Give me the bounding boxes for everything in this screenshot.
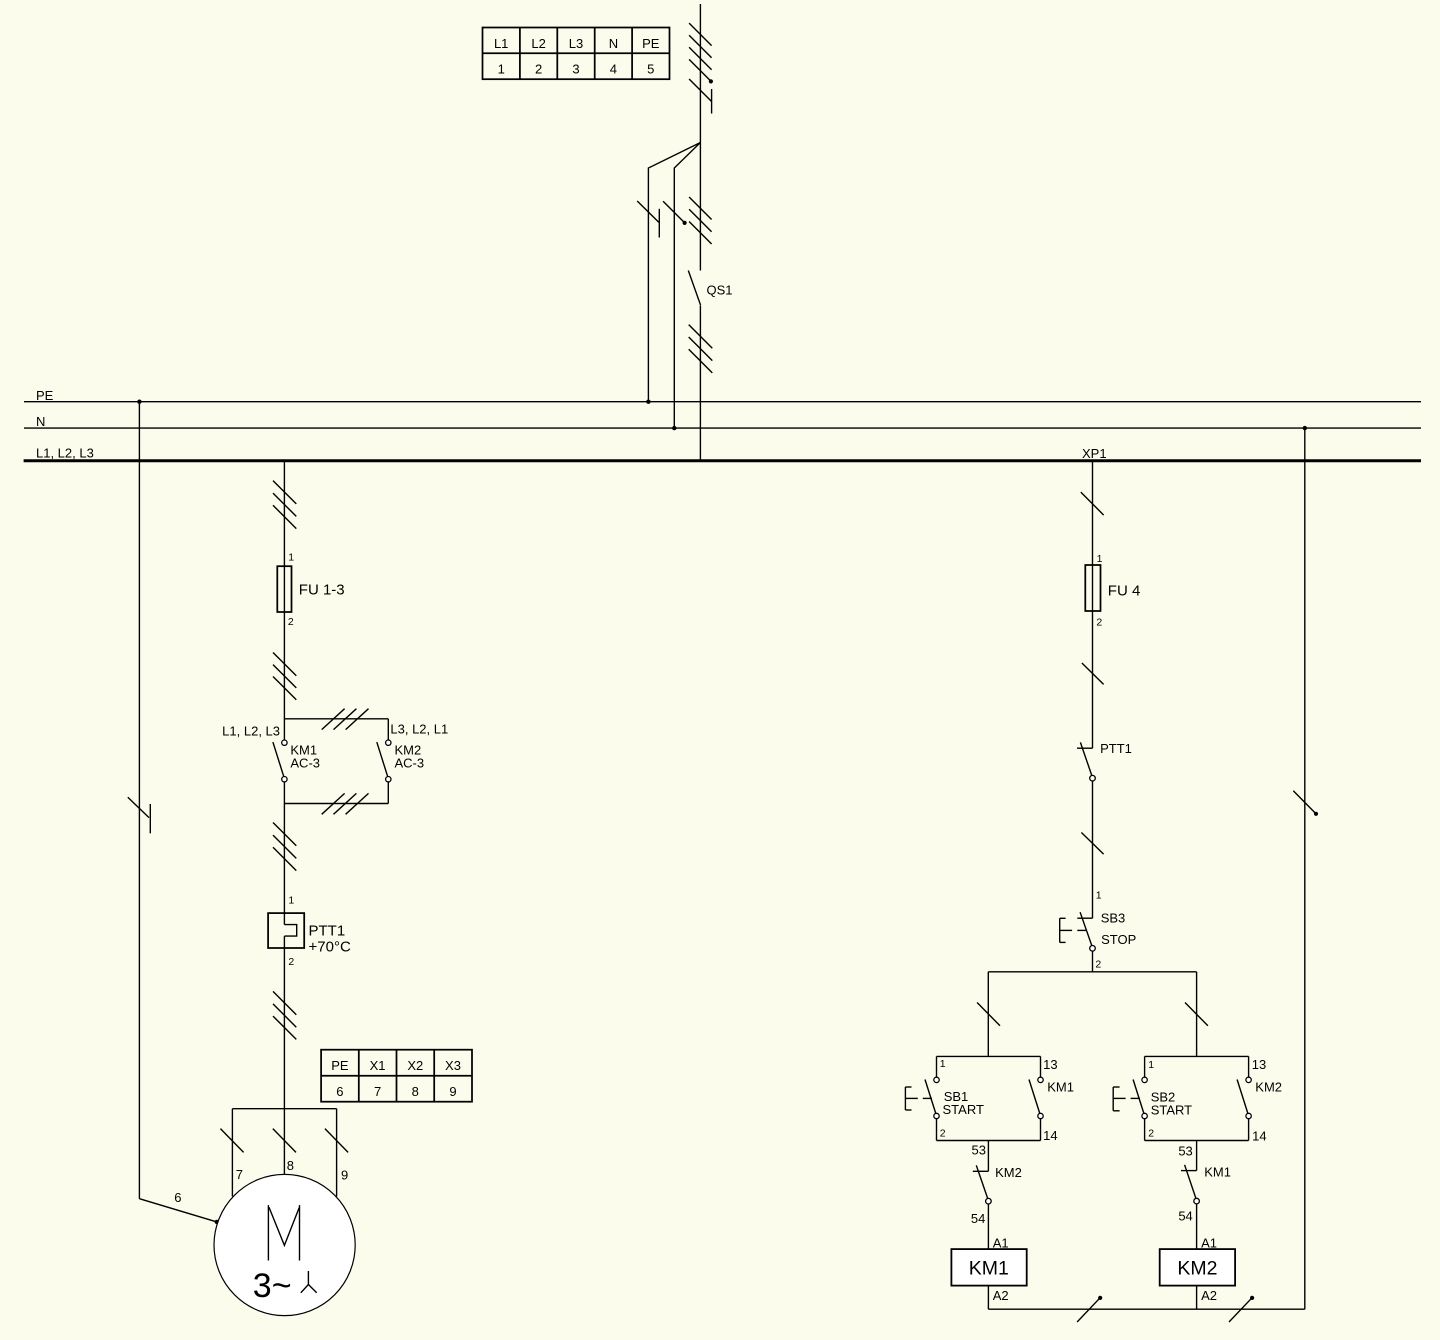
svg-text:54: 54 bbox=[971, 1211, 985, 1226]
svg-text:X2: X2 bbox=[407, 1058, 423, 1073]
svg-text:2: 2 bbox=[1096, 617, 1102, 629]
svg-text:13: 13 bbox=[1043, 1057, 1057, 1072]
svg-text:1: 1 bbox=[1096, 890, 1102, 902]
svg-text:AC-3: AC-3 bbox=[290, 756, 320, 771]
thermal sensor PTT1 +70C bbox=[268, 913, 304, 948]
conductor slash on SB1 drop bbox=[977, 1003, 1000, 1026]
conductor slash on SB2 drop bbox=[1185, 1003, 1208, 1026]
conductor slash on centre drop bbox=[273, 1129, 296, 1153]
node: N core dot mark bbox=[709, 79, 713, 83]
disconnector QS1 bbox=[688, 271, 700, 306]
svg-text:13: 13 bbox=[1252, 1057, 1266, 1072]
wire: KM1 aux leg lower bbox=[1040, 1119, 1042, 1141]
wire: drop to SB1 bbox=[987, 972, 989, 1057]
wire: coil KM2 to N return bbox=[1196, 1286, 1198, 1310]
svg-text:PE: PE bbox=[36, 388, 54, 403]
PE conductor mark (slash+bar) bbox=[637, 201, 659, 238]
svg-text:PTT1: PTT1 bbox=[309, 923, 346, 940]
svg-text:FU 1-3: FU 1-3 bbox=[299, 581, 345, 598]
wire: left branch mid bbox=[283, 782, 285, 925]
aux contact KM2 (NO) bbox=[1237, 1080, 1248, 1114]
wire: SB1 left leg upper bbox=[936, 1056, 938, 1077]
svg-text:A2: A2 bbox=[1201, 1288, 1217, 1303]
wire: PE diagonal to motor frame bbox=[139, 1199, 216, 1222]
node: N bus junction bbox=[672, 426, 676, 430]
svg-text:4: 4 bbox=[610, 62, 617, 77]
wire: SB1 bottom rung bbox=[937, 1140, 1041, 1142]
wire: left branch lower bbox=[283, 936, 285, 1174]
PE core bar mark bbox=[711, 89, 713, 114]
wire: motor feeder rung bbox=[232, 1108, 336, 1110]
supply cable conductor marks (5 cores) bbox=[689, 23, 712, 101]
wire: interlock to coil KM1 bbox=[987, 1204, 989, 1249]
svg-text:L1, L2, L3: L1, L2, L3 bbox=[222, 724, 280, 739]
svg-text:PE: PE bbox=[331, 1058, 349, 1073]
svg-text:2: 2 bbox=[535, 62, 542, 77]
conductor slash below FU4 bbox=[1082, 663, 1104, 684]
svg-text:2: 2 bbox=[940, 1127, 946, 1139]
wire: N drop right side bbox=[1304, 428, 1306, 1309]
N conductor mark on bottom wire (left) bbox=[1077, 1298, 1100, 1322]
wire: KM2 aux leg lower bbox=[1248, 1119, 1250, 1141]
svg-text:KM2: KM2 bbox=[1177, 1257, 1217, 1279]
thermostat contact PTT1 (NC) bbox=[1077, 742, 1093, 775]
svg-text:KM2: KM2 bbox=[1255, 1080, 1282, 1095]
three-phase mark on top rung bbox=[322, 709, 369, 730]
svg-text:PTT1: PTT1 bbox=[1100, 741, 1132, 756]
wire: SB2 bottom rung bbox=[1145, 1140, 1249, 1142]
svg-text:3~: 3~ bbox=[253, 1267, 292, 1305]
svg-text:7: 7 bbox=[236, 1167, 243, 1182]
three-phase mark above contactor bbox=[273, 653, 296, 700]
wire below QS1 bbox=[699, 306, 701, 461]
wire: bottom N return bbox=[988, 1308, 1304, 1310]
pushbutton SB1 START (NO) bbox=[925, 1080, 936, 1114]
PE conductor mark on drop (slash+bar) bbox=[128, 797, 151, 833]
wire: KM2 leg upper bbox=[387, 719, 389, 740]
svg-text:START: START bbox=[1151, 1102, 1192, 1117]
bus L1,L2,L3 bbox=[24, 459, 1421, 462]
svg-text:N: N bbox=[36, 414, 45, 429]
svg-text:3: 3 bbox=[572, 62, 579, 77]
wire: SB1 left leg lower bbox=[936, 1119, 938, 1141]
svg-text:6: 6 bbox=[174, 1190, 181, 1205]
wire: incoming supply line bbox=[699, 4, 701, 271]
svg-text:PE: PE bbox=[642, 36, 660, 51]
wire: SB2 top rung bbox=[1145, 1055, 1249, 1057]
node: PE bus junction bbox=[646, 400, 650, 404]
interlock contact KM2 (NC) bbox=[973, 1165, 989, 1198]
wire: KM2 leg lower bbox=[387, 782, 389, 804]
interlock contact KM1 (NC) bbox=[1181, 1165, 1197, 1199]
wire: SB2 left leg lower bbox=[1144, 1119, 1146, 1141]
svg-text:1: 1 bbox=[498, 62, 505, 77]
svg-text:1: 1 bbox=[940, 1058, 946, 1070]
svg-text:L1: L1 bbox=[494, 36, 508, 51]
svg-text:KM1: KM1 bbox=[1047, 1080, 1074, 1095]
svg-text:7: 7 bbox=[374, 1084, 381, 1099]
conductor slash on right drop bbox=[325, 1129, 348, 1153]
wire: KM2 aux leg upper bbox=[1248, 1056, 1250, 1077]
wire: drop to SB2 bbox=[1196, 972, 1198, 1057]
svg-text:1: 1 bbox=[288, 552, 294, 564]
conductor slash on left drop bbox=[220, 1129, 243, 1153]
svg-text:53: 53 bbox=[1178, 1144, 1192, 1159]
three-phase mark below QS1 bbox=[689, 325, 713, 373]
wire: PE drop to motor bbox=[138, 402, 140, 1199]
svg-text:8: 8 bbox=[287, 1158, 294, 1173]
svg-text:14: 14 bbox=[1043, 1128, 1057, 1143]
svg-text:FU 4: FU 4 bbox=[1108, 583, 1141, 600]
svg-text:54: 54 bbox=[1178, 1209, 1192, 1224]
svg-text:6: 6 bbox=[336, 1084, 343, 1099]
node: PE connection at motor bbox=[215, 1220, 219, 1224]
svg-text:X1: X1 bbox=[370, 1058, 386, 1073]
svg-text:9: 9 bbox=[341, 1167, 348, 1182]
svg-text:STOP: STOP bbox=[1101, 932, 1136, 947]
three-phase mark above QS1 bbox=[689, 197, 712, 244]
star winding symbol bbox=[301, 1271, 317, 1293]
wire: SB2 left leg upper bbox=[1144, 1056, 1146, 1077]
coil KM1 bbox=[951, 1249, 1026, 1286]
wire: SB1 top rung bbox=[937, 1055, 1041, 1057]
svg-text:8: 8 bbox=[412, 1084, 419, 1099]
wire: KM1 aux leg upper bbox=[1040, 1056, 1042, 1077]
three-phase mark below PTT1 bbox=[273, 991, 296, 1039]
svg-text:L3, L2, L1: L3, L2, L1 bbox=[390, 722, 448, 737]
svg-text:KM1: KM1 bbox=[1204, 1165, 1231, 1180]
N conductor mark on right drop bbox=[1293, 791, 1316, 814]
svg-text:14: 14 bbox=[1252, 1129, 1266, 1144]
svg-text:2: 2 bbox=[288, 956, 294, 968]
wire: fan split to PE conductor bbox=[648, 143, 700, 402]
wire: SB1 to KM2 interlock bbox=[987, 1141, 989, 1172]
wire: SB3 to splitter rung bbox=[1092, 951, 1094, 972]
bus PE bbox=[24, 401, 1421, 403]
N conductor mark on bottom wire (right) bbox=[1229, 1298, 1252, 1322]
svg-text:KM2: KM2 bbox=[995, 1165, 1022, 1180]
N conductor mark (slash+dot) bbox=[663, 201, 685, 223]
svg-text:AC-3: AC-3 bbox=[395, 756, 425, 771]
terminal table XT (L1 L2 L3 N PE / 1 2 3 4 5) bbox=[483, 28, 670, 80]
wire: control branch from bus bbox=[1092, 461, 1094, 749]
svg-text:SB3: SB3 bbox=[1101, 911, 1126, 926]
conductor slash above FU4 bbox=[1081, 492, 1104, 515]
wire: below PTT1 contact bbox=[1092, 781, 1094, 918]
pushbutton SB2 START (NO) bbox=[1133, 1080, 1144, 1114]
wire: SB2 to KM1 interlock bbox=[1196, 1141, 1198, 1171]
wire: interlock to coil KM2 bbox=[1196, 1204, 1198, 1249]
svg-text:L3: L3 bbox=[569, 36, 583, 51]
wire: left power branch upper bbox=[283, 461, 285, 740]
conductor slash above SB3 bbox=[1081, 833, 1103, 855]
coil KM2 bbox=[1160, 1249, 1235, 1286]
bus N bbox=[24, 427, 1421, 429]
wire: fan split to N conductor bbox=[674, 143, 700, 429]
three-phase mark below bus bbox=[273, 481, 296, 529]
svg-text:+70°C: +70°C bbox=[309, 939, 351, 956]
svg-text:2: 2 bbox=[1095, 959, 1101, 971]
svg-text:N: N bbox=[609, 36, 618, 51]
svg-text:X3: X3 bbox=[445, 1058, 461, 1073]
aux contact KM1 (NO) bbox=[1029, 1080, 1040, 1114]
terminal table X1 (PE X1 X2 X3 / 6 7 8 9) bbox=[321, 1050, 472, 1102]
contactor KM2 main contact bbox=[377, 742, 388, 776]
svg-text:XP1: XP1 bbox=[1082, 446, 1107, 461]
wire: motor drop left bbox=[231, 1109, 233, 1197]
wire: splitter rung bbox=[988, 971, 1196, 973]
svg-text:QS1: QS1 bbox=[707, 283, 733, 298]
svg-text:L2: L2 bbox=[531, 36, 545, 51]
pushbutton SB3 STOP (NC) bbox=[1060, 912, 1093, 946]
three-phase mark on bottom rung bbox=[322, 793, 369, 814]
three-phase mark above PTT1 bbox=[273, 823, 296, 871]
wire: contactor top rung bbox=[284, 718, 388, 720]
node: PE bus junction left bbox=[137, 400, 141, 404]
svg-text:A2: A2 bbox=[993, 1288, 1009, 1303]
svg-text:START: START bbox=[943, 1102, 984, 1117]
wire: motor drop right bbox=[336, 1109, 338, 1197]
svg-text:2: 2 bbox=[288, 616, 294, 628]
svg-text:1: 1 bbox=[288, 895, 294, 907]
wire: contactor bottom rung bbox=[284, 803, 388, 805]
wire: coil KM1 to N return bbox=[987, 1286, 989, 1310]
svg-text:2: 2 bbox=[1148, 1128, 1154, 1140]
fuse FU 4 bbox=[1085, 565, 1100, 611]
svg-text:1: 1 bbox=[1148, 1059, 1154, 1071]
svg-text:9: 9 bbox=[449, 1084, 456, 1099]
fuse FU 1-3 bbox=[277, 566, 291, 612]
svg-text:KM1: KM1 bbox=[969, 1257, 1009, 1279]
contactor KM1 main contact bbox=[273, 742, 284, 776]
svg-text:53: 53 bbox=[972, 1142, 986, 1157]
svg-text:1: 1 bbox=[1097, 553, 1103, 565]
motor M1 3~ bbox=[214, 1174, 355, 1315]
node: N bus junction right bbox=[1303, 426, 1307, 430]
svg-text:L1, L2, L3: L1, L2, L3 bbox=[36, 445, 94, 460]
svg-text:5: 5 bbox=[647, 62, 654, 77]
